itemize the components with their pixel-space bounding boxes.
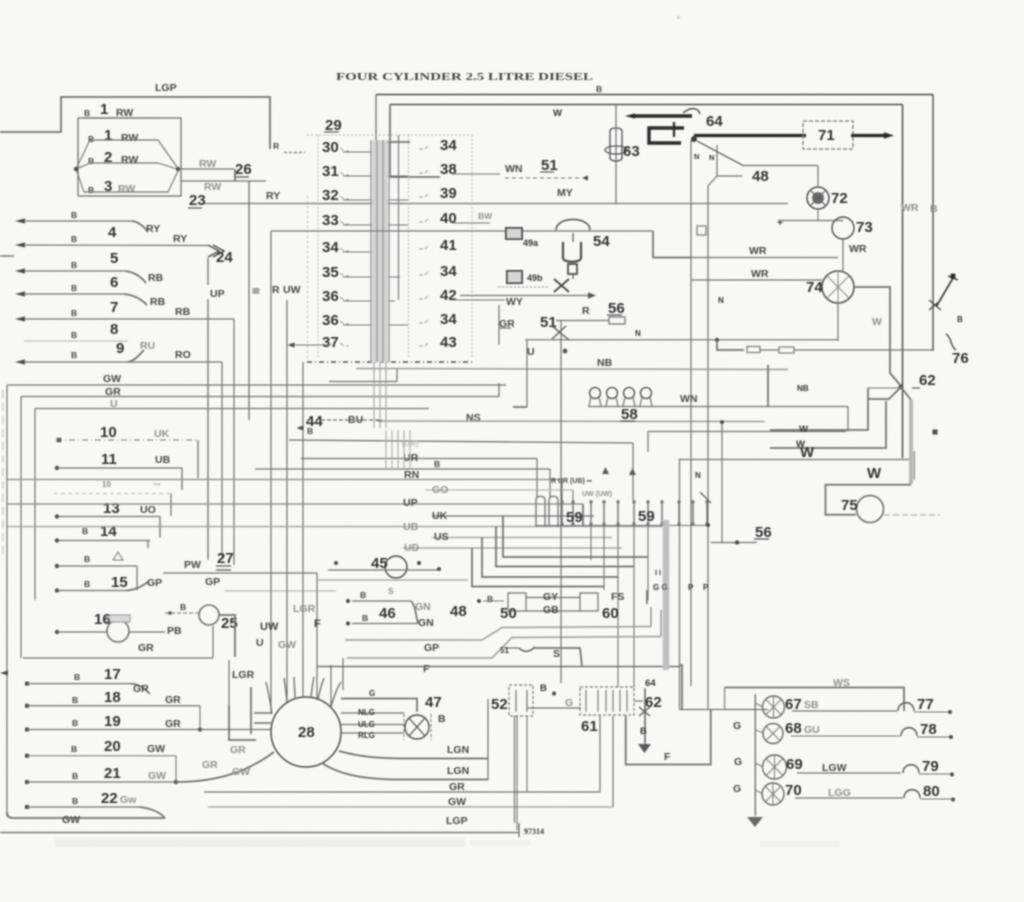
wire NB bus	[356, 369, 788, 370]
terminal 4 row	[15, 242, 25, 247]
row 11 drop	[181, 468, 183, 490]
wire bundle below block	[373, 362, 375, 428]
wire RN bus	[7, 479, 562, 481]
wire 28 right lead 2	[341, 724, 404, 726]
component 50 box	[508, 593, 526, 611]
component 47 lamp	[405, 715, 429, 739]
wire glow plug bar	[588, 406, 848, 408]
wire pins bottom rail	[536, 525, 710, 527]
wire F right corner	[680, 665, 682, 710]
row 2 wire	[90, 139, 158, 141]
terminal 15b row GP	[55, 588, 59, 592]
wire pins right going out 40	[452, 222, 490, 224]
wire UD bus	[403, 547, 622, 549]
terminal 46 lower wire	[346, 622, 350, 626]
terminal 19 row	[25, 728, 29, 732]
wire row30 to pin34	[386, 142, 410, 152]
node row19 junction	[198, 727, 202, 731]
wire block drop link	[329, 381, 397, 383]
wire RW to terminal 26	[181, 168, 234, 170]
wire GP bus mid	[345, 627, 651, 641]
wire inner box right edge	[902, 105, 904, 459]
row 6 curve	[124, 294, 147, 305]
wire GB	[526, 610, 580, 612]
wire 28 right lead 3	[341, 732, 404, 734]
wire fuse to right border	[794, 349, 933, 351]
component 71 box	[803, 121, 853, 149]
wire GO corner	[572, 490, 574, 500]
wire GR bracket	[499, 305, 511, 345]
wire 52 pin drop 2	[526, 716, 528, 792]
wire stair 1 drop	[770, 388, 868, 430]
terminal 21 row	[25, 780, 29, 784]
wire nest US corner	[482, 538, 618, 578]
wire P vertical 2	[707, 186, 709, 709]
wire through 45	[328, 569, 438, 571]
wire thick bus to 71	[694, 134, 806, 137]
wire WS feed	[725, 688, 904, 712]
wire right column stub	[913, 451, 915, 480]
wire S to corner	[535, 648, 582, 666]
component 72 ignition coil	[807, 187, 829, 209]
wire pins bundle vertical	[397, 430, 399, 470]
wire to 56 box	[556, 320, 609, 322]
wire 73 down to 74	[842, 239, 844, 271]
component 47 connector dashes	[403, 714, 405, 740]
label B small right	[932, 429, 937, 434]
component lamp 68	[763, 724, 783, 744]
component 80 sensor	[904, 790, 920, 798]
row 14 drop	[147, 541, 149, 549]
connector 59 pin	[661, 500, 663, 526]
wire WY	[460, 295, 588, 297]
terminal 18 row	[25, 704, 29, 708]
terminal 6 row	[15, 291, 25, 296]
wire WN dashed arrow	[505, 177, 580, 179]
terminal 12 dashed row	[54, 493, 171, 495]
wire NS bus	[382, 420, 765, 423]
component 16 sender	[107, 620, 129, 642]
wire left tall box	[514, 716, 516, 823]
wire U left vertical	[34, 409, 36, 601]
wire nest UK corner	[503, 516, 648, 557]
terminal 17 row	[25, 682, 29, 686]
wire GW bottom bus	[208, 806, 613, 808]
wire UR bus right extension	[680, 459, 912, 461]
wire between fuses	[760, 349, 779, 351]
component lamp 70	[762, 783, 784, 805]
wire UP vertical lower	[207, 299, 209, 560]
wire long y203 right part is RY bus, y230 bus	[271, 230, 653, 232]
wire row30 link	[343, 151, 386, 153]
connector right column dashed left edge	[408, 135, 410, 358]
wire U corner	[513, 406, 527, 408]
wire y636 corner up	[660, 610, 662, 636]
wire y221 link	[778, 220, 843, 222]
wire lamp vertical	[754, 694, 756, 816]
wire to 16	[55, 630, 59, 634]
wire row33	[343, 224, 408, 226]
wire outer box right edge	[932, 95, 934, 352]
terminal 46 upper wire	[346, 599, 350, 603]
terminal row37 arrow	[288, 342, 295, 347]
wire glow bar corner	[847, 407, 849, 432]
junction X 54	[554, 279, 569, 292]
wire 53 to 62	[634, 700, 643, 702]
wire below pin 618	[617, 526, 619, 687]
wire U bus	[35, 408, 429, 410]
row GP curve	[126, 582, 148, 591]
wire vertical 722	[721, 422, 723, 543]
wire row42 going right	[452, 299, 505, 301]
wire below pin 591	[590, 526, 592, 560]
wire 48 branch	[716, 145, 718, 176]
wire BU corner down	[376, 420, 382, 421]
connector 53 pin	[612, 690, 614, 712]
wire WR upper	[691, 257, 838, 259]
wire 77 end	[914, 711, 948, 713]
wire W elbow	[826, 485, 912, 515]
wire from 16	[129, 631, 165, 633]
connector 59 pin	[706, 500, 708, 526]
connector block dotted left edge	[307, 196, 309, 362]
component glow plug 3	[624, 388, 635, 399]
wire UP bus	[7, 503, 583, 505]
wire 28 left stubs	[254, 712, 272, 714]
wire box66 feed	[680, 709, 769, 711]
terminal 22 row	[25, 805, 29, 809]
connector 59 pin	[572, 500, 574, 526]
wire lead 4 down to 28	[316, 580, 318, 700]
wire 54 links	[572, 233, 574, 242]
arrow left edge	[0, 670, 8, 675]
row 4 wire	[84, 191, 168, 193]
wire riser GW to 53	[612, 716, 614, 807]
component 49a	[506, 228, 522, 239]
wire 60 corner	[646, 590, 648, 604]
component 49b	[507, 271, 522, 283]
wire UB bus	[7, 526, 662, 528]
node blob	[563, 349, 568, 354]
component 24 contact	[208, 245, 219, 257]
connector 59 pin	[590, 500, 592, 526]
wire row 77	[792, 710, 897, 712]
wire N to 48	[744, 165, 818, 167]
wire fuel pump lead	[615, 105, 617, 203]
wire below pin 634	[633, 526, 635, 687]
wire pins bundle vertical	[403, 430, 405, 470]
component 53 connector	[580, 687, 634, 715]
component glow plug 2	[607, 388, 618, 399]
wire bus y469	[255, 468, 550, 470]
wire bus y469 corner	[549, 469, 551, 497]
row 9 curve	[128, 350, 144, 362]
wire stair 1	[868, 387, 901, 389]
wire PW continues	[317, 579, 468, 581]
component 56 box	[609, 317, 625, 324]
connector 59 pin	[678, 500, 680, 526]
wire bundle strand	[388, 140, 390, 362]
node row21 junction	[174, 780, 178, 784]
wire GW bus	[7, 384, 506, 386]
wire GW left vertical	[6, 385, 8, 817]
wire bus y636	[347, 637, 661, 659]
wire UP vertical upper	[207, 258, 209, 285]
wire 44 to BU	[321, 419, 376, 421]
terminal 5 row	[15, 268, 25, 273]
wire GP left corner down	[342, 658, 344, 690]
connector 59 pin	[647, 500, 649, 526]
connector 53 pin	[626, 690, 628, 712]
wire y230 corner down	[653, 231, 691, 258]
wire vertical 645	[644, 688, 646, 744]
connector 53 pin	[619, 690, 621, 712]
wire gray band GG	[663, 520, 670, 670]
wire gray W band down	[909, 400, 913, 484]
component 76 switch lever	[936, 278, 953, 307]
wire vertical 398 through connector	[398, 135, 400, 300]
wire nest UD corner	[472, 548, 604, 587]
junction X on border	[929, 300, 941, 310]
connector block dash-dot bottom	[307, 361, 472, 363]
wire 52 to 53	[527, 707, 581, 709]
wire stub left of circle 28	[228, 660, 230, 705]
component 25	[199, 605, 219, 625]
connector 59 pin	[617, 500, 619, 526]
terminal 8 row faint	[24, 340, 128, 342]
wire 28 crown fan	[266, 682, 272, 714]
connector 59 left loop 2	[549, 496, 558, 527]
wire GW bottom return	[7, 812, 165, 818]
wire LGP from left edge	[0, 97, 270, 149]
component 54 plug	[563, 242, 581, 262]
wire 48 drop	[817, 166, 819, 187]
wire vertical from row9	[221, 362, 223, 560]
wire N bus	[525, 339, 838, 341]
component switch X	[552, 326, 569, 340]
wire 20 vertical link	[175, 756, 177, 782]
wire lamp diag links	[755, 703, 764, 794]
wire below pin 648	[647, 526, 649, 600]
wire pins bundle vertical	[409, 430, 411, 470]
wire GR bus	[21, 396, 499, 398]
connector 53 pin	[597, 690, 599, 712]
connector left column edge	[317, 135, 319, 358]
wire LGN riser	[487, 699, 489, 780]
ground arrow	[638, 744, 651, 753]
connector 53 pin	[605, 690, 607, 712]
wire bundle strand	[376, 140, 378, 362]
wire bundle strand	[382, 140, 384, 362]
wire lead UW down to 28	[286, 300, 288, 701]
wire LGP bottom bus	[0, 832, 518, 834]
row 13 drop to US	[159, 517, 161, 538]
wire inner box top	[390, 104, 903, 106]
wire 80 end	[920, 798, 951, 800]
scan smudge bottom	[55, 838, 465, 847]
wire PW row	[163, 572, 317, 574]
component fuse 1	[747, 347, 760, 353]
component 64 inner tick	[673, 122, 675, 137]
component small box on wire	[697, 226, 706, 235]
terminal 14 row	[55, 538, 59, 542]
dotted base 49	[498, 286, 549, 288]
wire hook from arrow	[683, 109, 700, 114]
wire RY long bus	[205, 203, 788, 205]
component 73	[832, 217, 854, 239]
connector 59 pin	[692, 500, 694, 526]
wire R dash	[284, 152, 305, 154]
row 1 terminal wire	[84, 117, 160, 119]
wire diagonal to vertical 708	[708, 176, 717, 186]
connector 59 pin	[561, 500, 563, 526]
wire pins right going out 38	[452, 173, 500, 175]
component 78 sensor	[901, 728, 917, 736]
connector 59 left loop 1	[536, 496, 545, 527]
connector 59 pin	[603, 500, 605, 526]
wire row19 to circle 28	[200, 729, 271, 731]
wire 79 end	[919, 773, 950, 775]
wire row34 link	[343, 251, 380, 253]
node dot 708	[706, 523, 710, 527]
wire bundle strand	[370, 140, 372, 362]
component 63 fuel pump	[610, 128, 622, 161]
wire US bus	[432, 537, 612, 539]
terminal row wire y221	[15, 218, 25, 223]
wire row32	[343, 199, 408, 201]
component 75 horn	[857, 496, 884, 523]
wire GO bus	[425, 489, 573, 491]
component 45	[385, 556, 407, 578]
marker triangle 1	[602, 467, 609, 474]
wire RW to terminal 23	[181, 180, 266, 182]
component lamp 69	[763, 755, 787, 779]
wire row21 to circle 28 diagonal	[176, 752, 274, 782]
row curve to RY	[132, 221, 148, 232]
terminal 15 row with triangle	[55, 564, 59, 568]
component 60 box	[580, 593, 598, 611]
wire UR bus corner down	[536, 459, 538, 498]
wire P vertical 1	[690, 140, 692, 686]
wire row35	[343, 276, 400, 278]
wire row 79	[797, 772, 901, 774]
component glow plug 1	[590, 388, 601, 399]
wire corner into 28	[229, 705, 256, 740]
wire row36b	[343, 324, 408, 326]
wire pins bundle vertical	[385, 430, 387, 470]
wire from 25 corner	[219, 615, 235, 657]
component S switch	[504, 647, 519, 649]
component glow plug 4	[641, 388, 652, 399]
component 66 box outline	[626, 710, 711, 765]
terminal 11 row	[55, 466, 59, 470]
wire 74 bottom to N bus	[837, 303, 839, 341]
node 64 junction blob	[691, 136, 697, 142]
row 3 wire	[90, 162, 158, 164]
row 5 curve	[125, 271, 146, 283]
wire to 56 node	[711, 542, 757, 544]
wire 48 stub	[477, 599, 481, 603]
wire gray under 45	[317, 579, 468, 581]
wire diag right down	[901, 387, 911, 400]
wire 52 pin drop 1	[516, 716, 518, 830]
wire 75 right	[884, 514, 940, 516]
component 64 bracket thick	[649, 128, 684, 143]
wire row 80	[795, 797, 903, 799]
wire GR left vertical	[20, 397, 22, 659]
wire GP corner up	[650, 607, 652, 627]
node N junction	[715, 338, 719, 342]
wire nest corner UP	[582, 504, 584, 526]
wire diag left down	[868, 387, 901, 399]
wire 74 right	[854, 287, 901, 386]
connector 59 pin	[633, 500, 635, 526]
connector 53 pin	[585, 690, 587, 712]
wire outer box top	[376, 94, 933, 96]
wire 25 down to GR	[212, 626, 214, 658]
component 74 motor	[822, 271, 854, 303]
wire lead R down to 28	[270, 231, 272, 714]
wire 22 return corner	[139, 807, 165, 818]
wire LGN lower	[322, 763, 488, 780]
wire thick bus from 71	[851, 134, 884, 137]
wire 18 vertical link	[199, 706, 201, 730]
wire GR row	[23, 657, 213, 659]
wire switch diag at 705	[700, 492, 711, 503]
component 79 sensor	[903, 765, 919, 773]
wire WS left drop	[724, 688, 726, 710]
ground lamp cluster	[747, 817, 763, 827]
wire F bus	[317, 666, 680, 668]
wire bundle below block	[385, 362, 387, 428]
wire row 78	[791, 735, 900, 737]
wire GY	[526, 597, 580, 599]
wire 28 top lead to 47	[341, 699, 417, 713]
connector block dashed top	[307, 134, 472, 136]
row 17 curve GR	[131, 684, 150, 694]
wire 56 vertical long	[560, 321, 562, 683]
junction cross bottom	[639, 707, 650, 716]
wire stub 2 left of circle 28	[250, 687, 252, 734]
wire bundle below block	[379, 362, 381, 428]
wire lead 5 down to 28	[330, 665, 332, 708]
wire 78 end	[917, 736, 949, 738]
wire below pin 604	[603, 526, 605, 590]
junction box RW	[78, 118, 181, 196]
wire lead 3 down to 28	[302, 362, 304, 697]
node left junction	[74, 167, 78, 171]
node right junction	[176, 167, 180, 171]
wire UK bus	[432, 515, 594, 517]
node junction 901,387	[899, 385, 904, 390]
wire vertical from row7	[233, 319, 235, 565]
component 52 connector	[509, 685, 533, 716]
terminal 20 row	[25, 754, 29, 758]
wire row36	[343, 300, 395, 302]
component lamp 67	[763, 696, 785, 718]
terminal 9 row	[15, 359, 25, 364]
wire stair 2 drop	[770, 401, 886, 448]
connector right column dashed right edge	[471, 135, 473, 358]
wire RW drop	[234, 169, 236, 181]
wire inner box left elbow	[390, 105, 440, 178]
terminal 13 row	[55, 514, 59, 518]
wire 72 down	[817, 209, 819, 221]
component 46 switch	[411, 601, 418, 623]
wire riser GR to 53	[599, 716, 601, 792]
wire LGN upper	[339, 751, 488, 759]
wire left glow box	[767, 365, 769, 406]
